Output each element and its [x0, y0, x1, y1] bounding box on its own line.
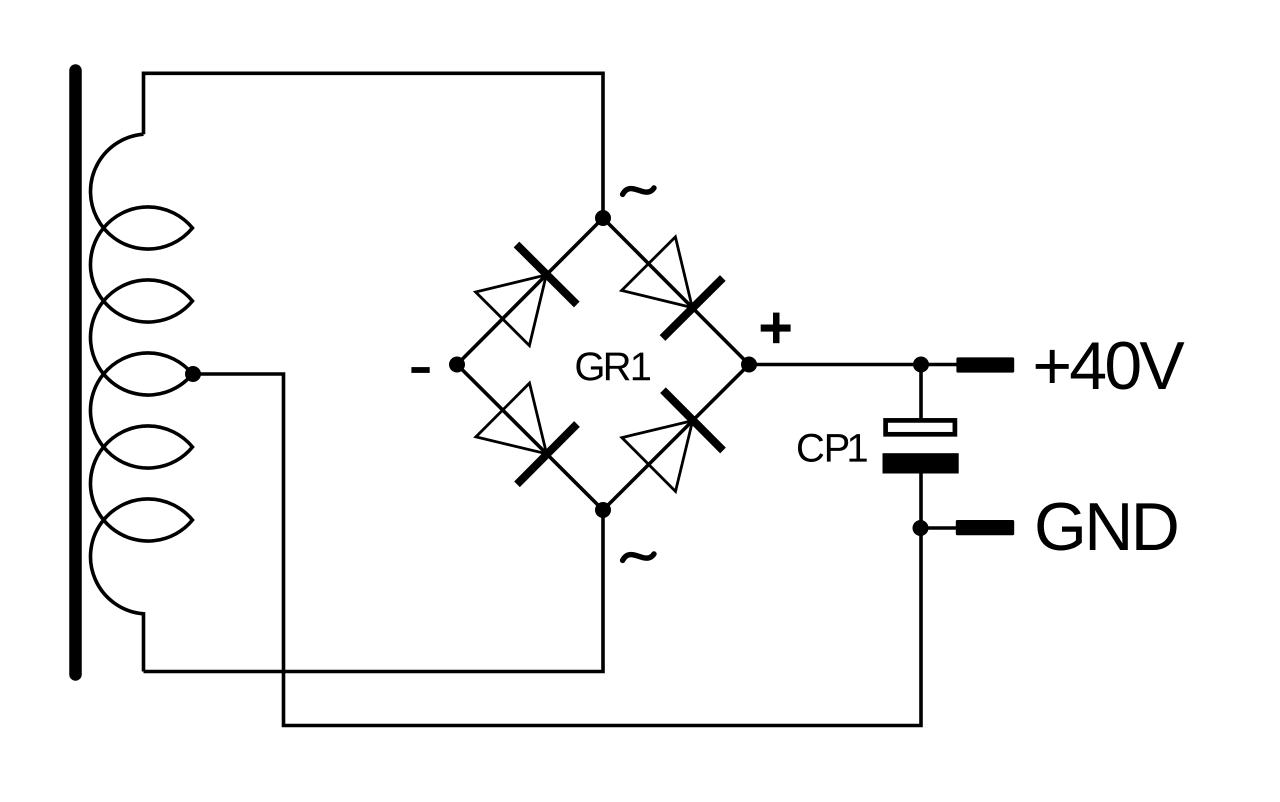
node: center tap dot [185, 366, 201, 382]
diode D2 cathode bar [663, 278, 723, 338]
capacitor CP1 bottom plate (solid) [883, 453, 959, 473]
wire: GND node to terminal [921, 526, 957, 530]
label ~ (top AC input) [623, 188, 654, 195]
wire: center tap return to GND [193, 374, 921, 726]
diode D3 (left to bottom) triangle [476, 383, 547, 454]
wire: secondary top lead to bridge top [144, 73, 604, 218]
terminal bar +40V [956, 357, 1014, 372]
node dot: bridge right (+) [741, 357, 757, 373]
diode D4 (bottom to right) triangle [622, 421, 693, 492]
node dot: bridge top (~) [595, 210, 611, 226]
node dot: bridge bottom (~) [595, 502, 611, 518]
terminal bar GND [956, 520, 1014, 535]
label GR1 [576, 352, 602, 380]
transformer T1 core bar [69, 71, 82, 675]
svg-text:GND: GND [1034, 489, 1177, 565]
label CP1 [798, 434, 823, 462]
capacitor CP1 top plate (positive, hollow) [886, 420, 955, 434]
diode D2 (top to right) triangle [622, 237, 693, 308]
node dot: GND junction [913, 520, 929, 536]
wire: + rail from bridge to terminal [749, 363, 957, 367]
label + (plus, bridge right) [761, 325, 791, 332]
transformer T1 secondary winding (coil) [90, 134, 192, 671]
diode D1 cathode bar [517, 245, 577, 305]
svg-text:+40V: +40V [1032, 328, 1185, 404]
node dot: +40V junction [913, 357, 929, 373]
wire: secondary bottom lead to bridge bottom [144, 510, 604, 672]
diode D3 cathode bar [517, 424, 577, 484]
diode D1 (left to top) triangle [476, 275, 547, 346]
diode D4 cathode bar [663, 390, 723, 450]
label ~ (bottom AC input) [623, 554, 654, 561]
wire: capacitor to GND node [919, 474, 923, 529]
wire: junction down to capacitor [919, 365, 923, 421]
bridge rectifier GR1 diamond wires [457, 218, 749, 510]
label - (minus, bridge left) [411, 367, 429, 373]
node dot: bridge left (-) [449, 357, 465, 373]
